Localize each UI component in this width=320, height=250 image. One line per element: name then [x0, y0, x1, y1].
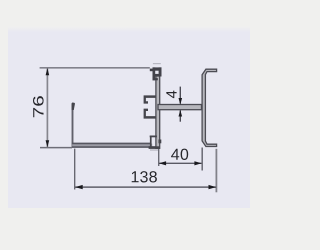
wire channel floor outer line [72, 146, 159, 148]
label 76 [33, 96, 44, 117]
channel floor band fill [72, 144, 152, 147]
dim 4 lower line [179, 110, 181, 121]
foot bottom bar [149, 146, 160, 149]
dim 138 right extension [215, 149, 217, 193]
central wall (mullion) [156, 76, 160, 148]
foot faint bottom ghost [150, 150, 158, 151]
central wall cap step bar [153, 78, 158, 80]
dim 76 top extension line [40, 67, 150, 69]
wire channel floor inner line [72, 142, 152, 144]
dim 40 line [159, 162, 202, 164]
wire left wall of U-channel [72, 103, 74, 147]
web connecting walls (4mm) [158, 105, 202, 110]
lower left tooth (hook) [144, 109, 156, 119]
arrow 76 down [46, 140, 50, 147]
dim 40 right extension [201, 148, 203, 171]
central wall left tab (76 reference) [150, 69, 153, 72]
dim 138 left extension [74, 149, 76, 190]
arrow 40 right [194, 161, 201, 165]
arrow 4 up [179, 110, 183, 117]
dim 138 line [75, 186, 216, 188]
upper left tooth (hook) [144, 95, 156, 103]
label 40 [171, 149, 188, 160]
label 138 [132, 171, 157, 182]
arrow 4 down [179, 98, 183, 105]
panel [8, 31, 250, 208]
foot left column [150, 136, 152, 147]
right C-channel [202, 69, 217, 146]
foot right tab [159, 140, 162, 144]
dim 40 left extension [158, 149, 160, 166]
left wall top lip [72, 102, 75, 110]
central wall cap left column [153, 67, 156, 80]
arrow 138 left [75, 185, 83, 189]
central wall cap right column [159, 67, 162, 76]
foot left step bar [150, 136, 157, 138]
dim 76 line [46, 68, 48, 147]
dim 4 upper line [179, 87, 181, 104]
central wall cap top bar [153, 67, 162, 70]
central wall faint top edge [153, 63, 161, 64]
arrow 138 right [209, 185, 217, 189]
arrow 76 up [46, 68, 50, 75]
central wall cap bottom bar [155, 74, 162, 77]
arrow 40 left [159, 161, 166, 165]
label 4 [166, 91, 176, 99]
dim 76 bottom extension line [40, 147, 72, 149]
